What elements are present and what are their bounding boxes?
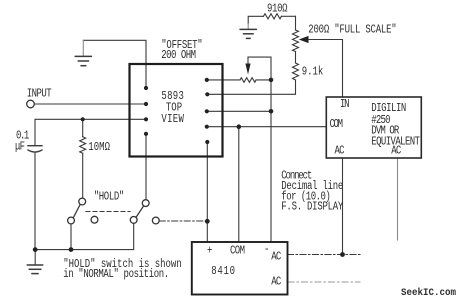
svg-text:8410: 8410 (211, 265, 235, 278)
svg-text:SeekIC.com: SeekIC.com (401, 287, 456, 299)
svg-text:COM: COM (330, 118, 344, 131)
svg-text:in "NORMAL" position.: in "NORMAL" position. (63, 268, 169, 281)
svg-text:AC: AC (391, 145, 401, 158)
svg-text:IN: IN (340, 98, 350, 111)
svg-text:μF: μF (15, 140, 25, 153)
svg-text:AC: AC (335, 145, 345, 158)
svg-text:+: + (207, 245, 212, 258)
svg-text:INPUT: INPUT (27, 88, 52, 101)
svg-text:910Ω: 910Ω (267, 3, 288, 16)
svg-text:200 OHM: 200 OHM (161, 49, 196, 62)
svg-text:AC: AC (271, 251, 281, 264)
svg-text:COM: COM (230, 245, 245, 258)
svg-text:AC: AC (271, 276, 281, 289)
svg-text:VIEW: VIEW (161, 113, 184, 126)
svg-text:200Ω "FULL SCALE": 200Ω "FULL SCALE" (308, 24, 396, 37)
svg-text:9.1k: 9.1k (302, 66, 324, 79)
svg-text:"HOLD": "HOLD" (94, 191, 125, 204)
svg-text:-: - (264, 243, 269, 256)
svg-text:10MΩ: 10MΩ (88, 141, 110, 154)
svg-text:F.S. DISPLAY: F.S. DISPLAY (281, 201, 344, 214)
